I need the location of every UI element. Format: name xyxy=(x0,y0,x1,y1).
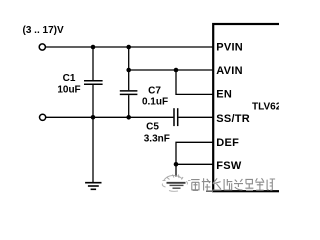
svg-text:DEF: DEF xyxy=(216,137,239,149)
svg-text:AVIN: AVIN xyxy=(216,65,242,77)
junction dot C1 top xyxy=(91,45,96,50)
wire ground branch xyxy=(92,117,94,182)
capacitor C1 plates xyxy=(84,80,103,82)
svg-text:SS/TR: SS/TR xyxy=(216,113,250,125)
capacitor C1 leads xyxy=(92,47,94,80)
watermark text underline blend into IC border xyxy=(206,190,213,192)
wire bottom rail to C5 xyxy=(46,116,174,118)
wire AVIN rail xyxy=(129,69,214,71)
svg-text:FSW: FSW xyxy=(216,160,242,172)
ground symbol (right, under watermark logo) xyxy=(167,182,186,184)
wire DEF xyxy=(176,142,214,164)
wire FSW xyxy=(176,163,214,165)
capacitor C7 plates xyxy=(120,90,138,92)
watermark logo scribble xyxy=(162,175,190,192)
svg-text:C5: C5 xyxy=(146,122,159,133)
wire FSW ground stub xyxy=(175,164,177,176)
svg-text:TLV620: TLV620 xyxy=(252,102,279,113)
IC U1 TLV62xxx block xyxy=(213,24,293,191)
ground symbol (left) xyxy=(85,182,101,184)
svg-text:PVIN: PVIN xyxy=(216,41,243,53)
svg-text:0.1uF: 0.1uF xyxy=(142,96,168,107)
svg-text:10uF: 10uF xyxy=(57,85,80,96)
junction dot ground branch xyxy=(91,115,96,120)
junction dot C7 top xyxy=(126,45,131,50)
svg-text:3.3nF: 3.3nF xyxy=(144,134,170,145)
wire C5 to SS/TR xyxy=(178,116,213,118)
junction dot FSW/DEF xyxy=(174,162,179,167)
svg-text:(3 .. 17)V: (3 .. 17)V xyxy=(23,25,64,36)
capacitor C7 leads xyxy=(128,47,130,90)
capacitor C5 plates xyxy=(173,108,175,126)
wire EN branch xyxy=(176,70,214,94)
junction dot C7 bottom xyxy=(126,115,131,120)
wire top rail VIN to PVIN xyxy=(46,46,214,48)
svg-text:EN: EN xyxy=(216,89,232,101)
input terminal VIN (top) xyxy=(39,44,45,50)
watermark text 硬件之路学习笔记 (approximated strokes) xyxy=(191,178,275,190)
svg-text:C1: C1 xyxy=(63,73,76,84)
output terminal (bottom) xyxy=(40,114,46,120)
junction dot AVIN at C7 branch xyxy=(126,68,131,73)
svg-text:C7: C7 xyxy=(148,86,161,97)
junction dot EN branch xyxy=(174,68,179,73)
